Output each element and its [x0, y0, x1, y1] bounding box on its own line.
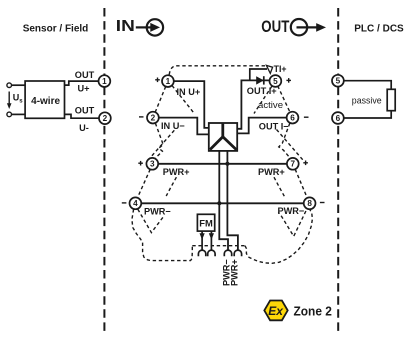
- svg-text:3: 3: [150, 160, 155, 169]
- svg-text:PWR+: PWR+: [258, 167, 285, 177]
- svg-text:OUT I−: OUT I−: [259, 121, 289, 131]
- svg-text:active: active: [258, 100, 283, 111]
- svg-text:2: 2: [151, 114, 156, 123]
- svg-text:OUT: OUT: [75, 70, 95, 80]
- svg-text:1: 1: [166, 77, 171, 86]
- svg-text:PLC / DCS: PLC / DCS: [354, 24, 404, 35]
- svg-text:2: 2: [103, 114, 108, 123]
- svg-text:Sensor / Field: Sensor / Field: [23, 24, 89, 35]
- svg-text:PWR+: PWR+: [230, 259, 240, 286]
- svg-text:8: 8: [307, 199, 312, 208]
- svg-text:OUT I+: OUT I+: [247, 86, 277, 96]
- svg-text:U-: U-: [79, 123, 89, 133]
- svg-text:1: 1: [102, 77, 107, 86]
- svg-text:passive: passive: [352, 96, 382, 106]
- svg-text:PWR+: PWR+: [163, 167, 190, 177]
- svg-text:PWR−: PWR−: [278, 206, 305, 216]
- svg-text:IN: IN: [116, 18, 135, 35]
- svg-text:4: 4: [133, 199, 138, 208]
- svg-text:5: 5: [336, 77, 341, 86]
- svg-text:6: 6: [336, 114, 341, 123]
- svg-text:IN U−: IN U−: [161, 121, 185, 131]
- svg-text:TI+: TI+: [274, 64, 287, 74]
- svg-text:FM: FM: [199, 218, 213, 229]
- svg-text:PWR−: PWR−: [144, 206, 171, 216]
- svg-text:4-wire: 4-wire: [31, 96, 60, 107]
- svg-text:7: 7: [291, 160, 296, 169]
- svg-text:OUT: OUT: [75, 105, 95, 115]
- svg-text:6: 6: [290, 114, 295, 123]
- svg-text:OUT: OUT: [261, 17, 289, 36]
- svg-text:5: 5: [273, 77, 278, 86]
- svg-text:Ex: Ex: [268, 304, 284, 318]
- svg-text:Zone 2: Zone 2: [294, 304, 332, 319]
- svg-text:IN U+: IN U+: [177, 87, 201, 97]
- svg-text:U+: U+: [77, 83, 89, 93]
